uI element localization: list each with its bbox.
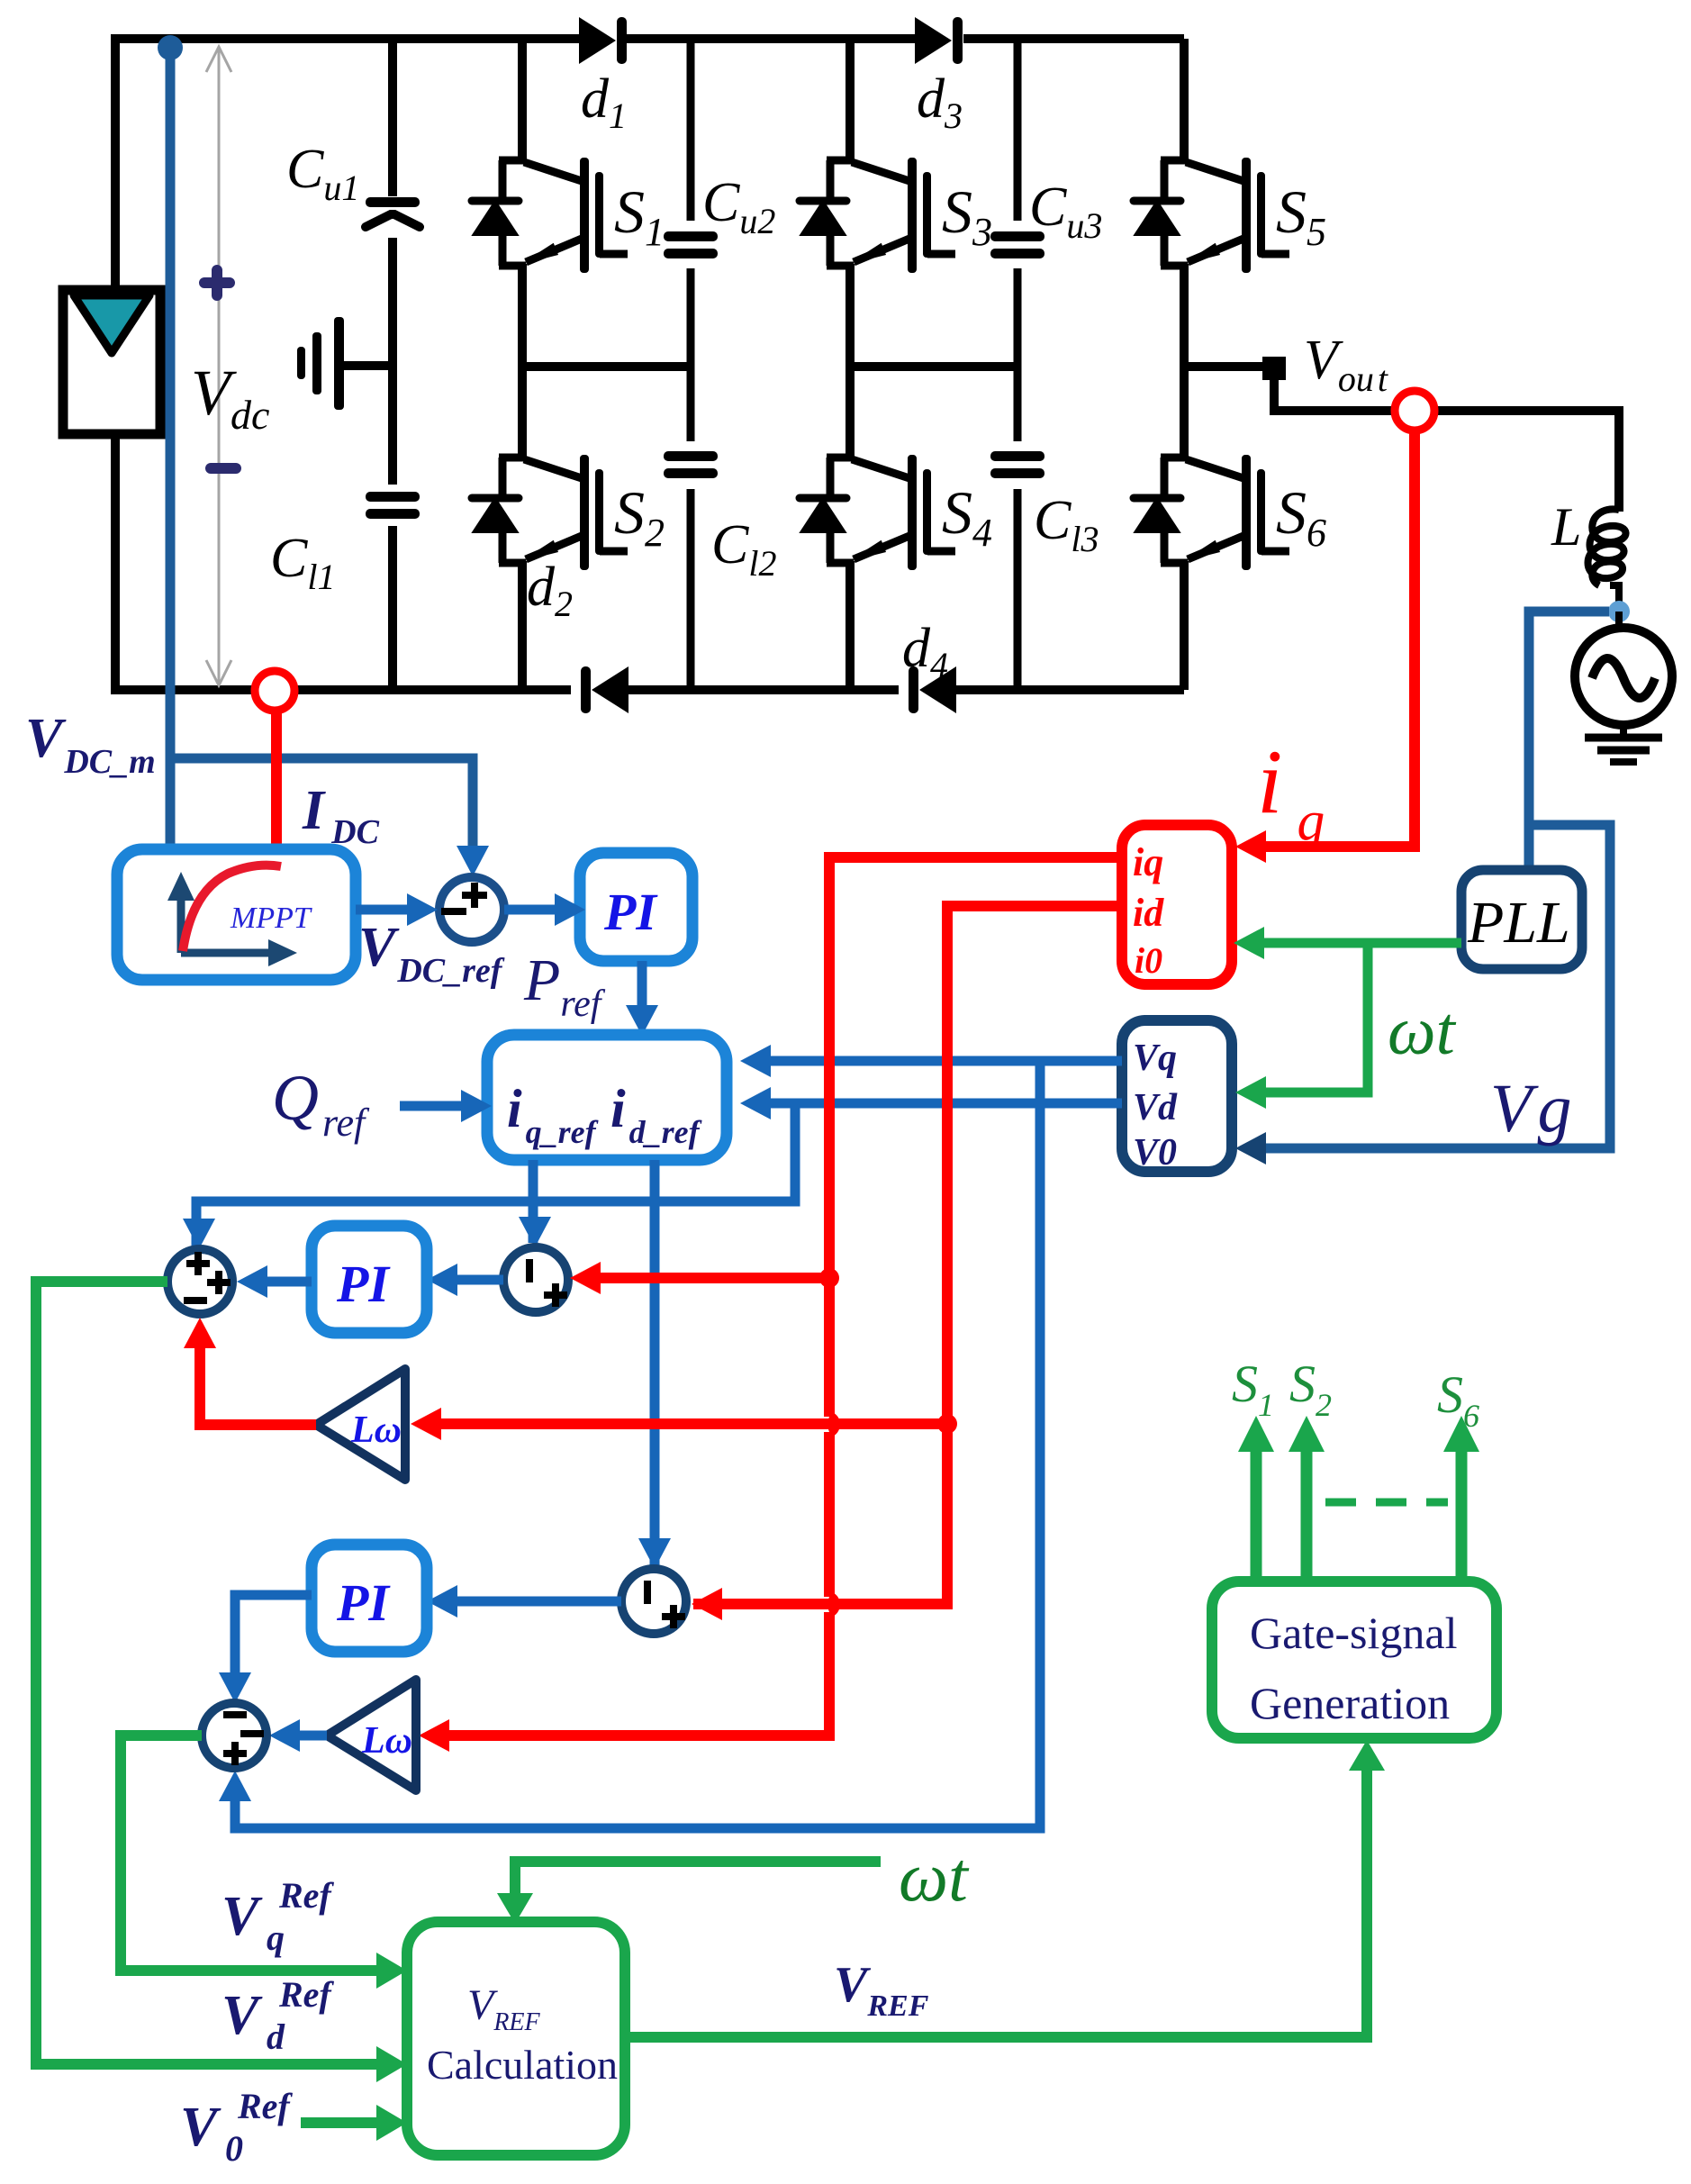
capacitor Cl3 <box>990 451 1044 478</box>
wire leg2 vertical <box>845 39 855 690</box>
arrow Vd into sum3 <box>183 1219 215 1249</box>
arrow S2 <box>1289 1416 1325 1452</box>
diode d2 <box>581 666 628 713</box>
arrow id into Lw1 <box>411 1408 441 1440</box>
MPPT axes <box>181 887 279 953</box>
wire iq branch to sum5 <box>599 1273 829 1283</box>
node Vout tap (black square) <box>1262 357 1286 380</box>
wire leg3 midpoint tap to output <box>1184 362 1262 371</box>
svg-text:MPPT: MPPT <box>230 902 312 935</box>
transistor S4 <box>800 455 955 570</box>
svg-text:Vout: Vout <box>1304 330 1388 399</box>
arrow PI2 to sum3 <box>266 1277 312 1287</box>
capacitor Cu3 <box>990 231 1044 258</box>
svg-text:Vq: Vq <box>1133 1038 1177 1079</box>
capacitor Cu2 <box>664 231 718 258</box>
summing junction sum6 <box>621 1569 686 1634</box>
sum3 plus sign top <box>186 1252 210 1275</box>
wire output to grid <box>1274 378 1619 512</box>
block MPPT <box>117 849 356 980</box>
arrow sum5 to PI2 <box>456 1275 503 1285</box>
diode d1 <box>579 17 627 64</box>
arrow id into sum6 <box>692 1588 722 1620</box>
transistor S6 <box>1134 455 1289 570</box>
probe circle ig (red) <box>1395 391 1434 430</box>
arrow S1 <box>1238 1416 1274 1452</box>
svg-text:Qref: Qref <box>272 1062 370 1145</box>
summing junction sum1 <box>439 877 504 942</box>
svg-text:i0: i0 <box>1135 940 1162 981</box>
node junction id to Lw1 <box>937 1414 957 1434</box>
arrow Vq_ref into VREF block <box>376 1953 407 1989</box>
arrow Lw1 out into sum3 <box>184 1318 216 1348</box>
node grid (light blue dot) <box>1608 601 1630 622</box>
arrow sum1 to PI1 <box>504 905 555 915</box>
wire bottom bus mid segment <box>625 685 899 694</box>
wire bottom bus right segment <box>953 685 1184 694</box>
svg-text:iq: iq <box>1133 840 1163 884</box>
svg-text:S4: S4 <box>942 478 992 555</box>
diode d4 <box>909 666 956 713</box>
capacitor Cu1 <box>366 197 420 227</box>
wire V_DC_m blue sense line <box>170 48 473 866</box>
transistor S2 <box>472 455 628 570</box>
battery Vdc symbol <box>297 317 394 410</box>
svg-text:d3: d3 <box>917 68 963 136</box>
wire PI3 output to sum4 <box>235 1595 312 1672</box>
svg-text:Calculation: Calculation <box>427 2042 618 2088</box>
arrow id_ref into sum6 <box>638 1538 671 1569</box>
block iq_ref id_ref <box>487 1035 727 1160</box>
hop iq over sum6 line <box>829 1597 835 1612</box>
arrow P_ref into iref block <box>626 1005 658 1036</box>
svg-text:V: V <box>180 2097 222 2158</box>
block PI2 <box>312 1226 427 1333</box>
svg-text:d: d <box>267 2016 285 2057</box>
svg-text:PI: PI <box>603 883 658 941</box>
sum6 plus sign <box>662 1605 685 1628</box>
wire I_DC red sense <box>271 711 282 854</box>
label plus sign <box>204 270 230 295</box>
svg-text:VDC_m: VDC_m <box>25 708 156 781</box>
svg-text:S5: S5 <box>1276 177 1326 254</box>
svg-text:S6: S6 <box>1437 1365 1479 1434</box>
arrow Vq into sum4 <box>219 1771 251 1801</box>
wire omega-t from PLL <box>1262 943 1461 1092</box>
wire id_ref stub to sum6 <box>650 1160 660 1565</box>
wire PV top lead <box>111 34 120 290</box>
dashed continuation <box>1325 1499 1448 1507</box>
svg-text:Vdc: Vdc <box>191 357 269 438</box>
arrow MPPT to sum1 <box>356 905 407 915</box>
arrow ig into iq block <box>1235 830 1266 863</box>
svg-text:Cu2: Cu2 <box>702 172 775 241</box>
svg-text:Cu3: Cu3 <box>1029 177 1102 246</box>
sum1 minus sign <box>441 908 466 915</box>
svg-text:S1: S1 <box>614 177 665 254</box>
wire PI1 to iref block <box>638 961 647 1007</box>
svg-text:Vd: Vd <box>1133 1087 1178 1128</box>
block VREF Calculation <box>407 1922 625 2155</box>
svg-text:PI: PI <box>336 1573 391 1632</box>
block PLL <box>1461 870 1582 969</box>
wire leg1 midpoint tap <box>522 362 691 371</box>
probe circle I_DC (red) <box>255 671 294 711</box>
sum3 plus sign right <box>207 1271 231 1294</box>
arrow iq into Lw2 <box>419 1719 449 1752</box>
transistor S5 <box>1134 158 1289 273</box>
sum6 minus sign <box>644 1581 651 1604</box>
wire id branch to Lw1 <box>439 1418 947 1429</box>
wire top bus right segment <box>963 34 1184 43</box>
diode d3 <box>915 17 963 64</box>
wire Vg branch <box>1264 825 1610 1148</box>
svg-text:Ref: Ref <box>278 1875 334 1916</box>
summing junction sum5 <box>503 1247 568 1312</box>
inductor L <box>1588 509 1626 605</box>
svg-text:Ref: Ref <box>278 1974 334 2015</box>
svg-text:L: L <box>1551 497 1581 557</box>
triangle gain Lw1 <box>316 1369 405 1480</box>
hop iq over Lw1 line <box>829 1417 835 1432</box>
wire leg3 vertical <box>1180 39 1189 690</box>
wire top bus left segment <box>113 34 579 43</box>
wire bottom bus left segment <box>113 685 571 694</box>
svg-text:ig: ig <box>1257 731 1325 852</box>
arrow omega-t into VREF top <box>497 1893 533 1924</box>
wire red id feedback <box>693 906 1122 1604</box>
block Vq Vd V0 <box>1122 1020 1232 1172</box>
wire grid sense to PLL (steel blue) <box>1529 612 1609 870</box>
transistor S3 <box>800 158 955 273</box>
svg-text:VREF: VREF <box>834 1957 929 2023</box>
svg-text:Cu1: Cu1 <box>286 139 359 208</box>
wire ig (red measurement) <box>1264 430 1415 847</box>
node DC+ (blue dot) <box>158 35 183 60</box>
arrow Lw2 output to sum4 <box>298 1731 327 1741</box>
wire leg1 vertical <box>518 39 527 690</box>
svg-text:Generation: Generation <box>1250 1678 1450 1728</box>
block iq id i0 <box>1122 825 1232 984</box>
svg-text:Cl3: Cl3 <box>1034 490 1099 559</box>
arrow PI3 into sum4 <box>219 1672 251 1703</box>
svg-text:V: V <box>222 1985 263 2046</box>
wire V0_ref input <box>301 2117 378 2128</box>
sum4 plus sign <box>223 1742 247 1765</box>
AC source Vg <box>1575 628 1672 725</box>
wire gate output S6 <box>1456 1448 1468 1581</box>
arrow Vd_ref into VREF block <box>376 2046 407 2082</box>
wire top bus mid segment <box>627 34 915 43</box>
wire Lw1 output to sum3 <box>200 1348 316 1425</box>
wire into AC source <box>1615 612 1623 628</box>
wire rail3 segments <box>1014 39 1022 690</box>
capacitor Cl2 <box>664 451 718 478</box>
wire red iq feedback <box>448 857 1122 1735</box>
svg-text:d1: d1 <box>581 68 627 136</box>
svg-text:Cl2: Cl2 <box>711 514 776 584</box>
svg-text:V: V <box>222 1886 263 1947</box>
wire gate output S2 <box>1301 1448 1313 1581</box>
svg-text:d2: d2 <box>527 557 573 624</box>
sum1 plus sign <box>462 883 487 908</box>
svg-text:d4: d4 <box>902 618 948 685</box>
arrow sum6 to PI3 <box>456 1597 621 1607</box>
svg-text:PI: PI <box>336 1255 391 1313</box>
svg-text:ωt: ωt <box>899 1837 970 1916</box>
arrow V_REF into gate block <box>1349 1740 1385 1771</box>
svg-text:ωt: ωt <box>1388 993 1457 1069</box>
svg-text:S2: S2 <box>614 478 665 555</box>
sum5 minus sign <box>526 1259 533 1282</box>
svg-text:S2: S2 <box>1289 1355 1332 1423</box>
block PI3 <box>312 1545 427 1652</box>
sum5 plus sign <box>544 1283 567 1307</box>
svg-text:S3: S3 <box>942 177 992 254</box>
capacitor Cl1 <box>366 492 420 519</box>
svg-text:Cl1: Cl1 <box>270 528 335 597</box>
wire V_REF output to gate block <box>625 1769 1367 2037</box>
wire leg2 midpoint tap <box>850 362 1017 371</box>
svg-text:Gate-signal: Gate-signal <box>1250 1608 1457 1658</box>
block Gate-signal Generation <box>1212 1581 1497 1738</box>
wire Vq feedforward <box>235 1061 1122 1828</box>
wire green Vq_ref out of sum4 <box>121 1735 378 1971</box>
block PI1 <box>580 853 692 961</box>
svg-text:q: q <box>267 1917 285 1958</box>
PV panel <box>63 290 160 434</box>
label minus sign <box>211 463 236 474</box>
wire rail2 segments <box>687 39 695 690</box>
arrow iq_ref into sum5 <box>519 1217 551 1247</box>
arrow iq into sum5 <box>570 1262 601 1294</box>
MPPT curve <box>183 865 281 951</box>
svg-text:V0: V0 <box>1133 1132 1177 1174</box>
sum4 minus sign top <box>223 1711 247 1718</box>
arrow V0_ref into VREF block <box>376 2105 407 2141</box>
wire iq_ref stub to sum5 <box>529 1160 538 1243</box>
wire Vd feedforward <box>196 1103 1122 1256</box>
arrow S6 <box>1443 1416 1479 1452</box>
arrow Vq into iref block <box>740 1045 771 1077</box>
sum3 minus sign <box>184 1297 207 1304</box>
node junction iq to sum5 <box>819 1268 839 1288</box>
wire rail1 segments <box>388 39 397 690</box>
svg-text:0: 0 <box>225 2128 243 2169</box>
svg-text:PLL: PLL <box>1467 890 1570 956</box>
wire green Vd_ref out of sum3 <box>36 1282 378 2064</box>
svg-text:Vg: Vg <box>1490 1071 1571 1146</box>
svg-text:Lω: Lω <box>361 1720 412 1762</box>
arrow Q_ref into block <box>400 1101 461 1111</box>
summing junction sum4 <box>202 1703 267 1768</box>
transistor S1 <box>472 158 628 273</box>
svg-text:Ref: Ref <box>237 2086 293 2126</box>
summing junction sum3 <box>167 1249 232 1314</box>
ground <box>1585 723 1662 762</box>
svg-text:Lω: Lω <box>350 1409 402 1451</box>
wire PV bottom lead <box>111 434 120 694</box>
triangle gain Lw2 <box>327 1680 416 1790</box>
svg-text:id: id <box>1133 891 1164 935</box>
arrow omega-t into Vq block <box>1235 1076 1266 1109</box>
wire gate output S1 <box>1251 1448 1262 1581</box>
measure arrow Vdc (gray) <box>206 47 231 685</box>
arrow omega-t into iq block <box>1234 927 1264 959</box>
svg-text:S1: S1 <box>1232 1355 1274 1423</box>
svg-text:IDC: IDC <box>302 780 380 851</box>
sum4 minus sign right <box>240 1730 264 1737</box>
arrow Vg into V0 <box>1235 1132 1266 1164</box>
arrow V_DC_m into sum1 <box>457 846 489 876</box>
svg-text:S6: S6 <box>1276 478 1326 555</box>
wire omega-t into VREF block <box>515 1862 881 1897</box>
arrow Vd into iref block <box>740 1087 771 1119</box>
